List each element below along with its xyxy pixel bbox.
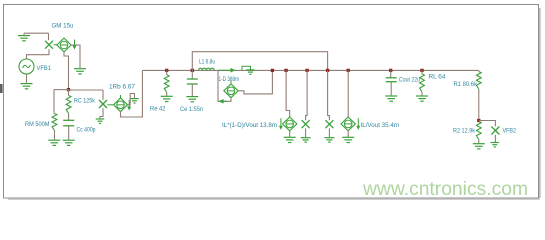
svg-text:Re 42: Re 42 — [150, 106, 166, 113]
svg-text:Cc 400p: Cc 400p — [77, 126, 96, 133]
svg-text:RM 500M: RM 500M — [25, 121, 50, 128]
svg-text:1-D 388m: 1-D 388m — [219, 76, 240, 83]
svg-text:VFB2: VFB2 — [503, 127, 517, 134]
svg-text:RC 125k: RC 125k — [74, 97, 96, 104]
svg-text:RL 64: RL 64 — [429, 74, 447, 81]
svg-text:1Rb 6.67: 1Rb 6.67 — [109, 84, 136, 91]
svg-text:www.cntronics.com: www.cntronics.com — [362, 179, 528, 200]
svg-text:VFB1: VFB1 — [37, 65, 52, 72]
svg-text:IL/Vout 35.4m: IL/Vout 35.4m — [361, 122, 400, 129]
svg-text:Cout 22u: Cout 22u — [399, 77, 420, 84]
svg-text:IL*(1-D)/Vout 13.8m: IL*(1-D)/Vout 13.8m — [222, 122, 277, 129]
svg-text:R2 12.9k: R2 12.9k — [453, 127, 476, 134]
svg-text:GM 15u: GM 15u — [52, 23, 74, 30]
svg-text:R1 80.6k: R1 80.6k — [454, 81, 478, 88]
svg-text:Ce 1.55n: Ce 1.55n — [180, 106, 203, 113]
svg-text:L1 6.8u: L1 6.8u — [199, 58, 215, 65]
